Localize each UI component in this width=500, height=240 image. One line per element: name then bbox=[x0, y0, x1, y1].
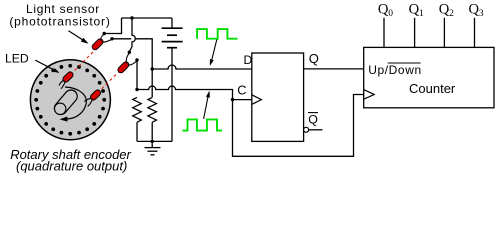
LED D1 body bbox=[62, 71, 75, 84]
phototransistor Q1 body bbox=[91, 38, 104, 51]
svg-text:(quadrature output): (quadrature output) bbox=[16, 159, 127, 174]
wire: R1 bottom bbox=[136, 122, 138, 141]
node: Q1 emitter bbox=[110, 37, 113, 40]
node: Q2 emitter bbox=[135, 58, 138, 61]
shaft cylinder bbox=[52, 87, 80, 117]
phototransistor Q2 body bbox=[117, 61, 130, 74]
svg-text:Counter: Counter bbox=[409, 81, 456, 96]
LED D2 leads bbox=[84, 98, 92, 106]
phototransistor Q1 leads bbox=[101, 34, 112, 42]
disk hole dots bbox=[34, 64, 106, 136]
svg-text:Q: Q bbox=[309, 51, 319, 66]
svg-text:Q: Q bbox=[378, 2, 389, 18]
wire: C branch to flip-flop clock bbox=[233, 99, 252, 101]
wire: Qbar stub bbox=[309, 129, 323, 131]
wire: bottom rail bbox=[137, 140, 172, 142]
svg-text:(phototransistor): (phototransistor) bbox=[9, 14, 110, 28]
rotation arrow bbox=[65, 87, 86, 119]
wire: Q2 stem bbox=[443, 18, 445, 48]
node: Q2 collector bbox=[128, 51, 131, 54]
wire: Q1 collector riser bbox=[104, 18, 121, 34]
counter U2 bbox=[364, 47, 494, 107]
svg-text:Up/Down: Up/Down bbox=[368, 63, 422, 77]
encoder disk bbox=[30, 60, 110, 140]
node: channel A / D line junction bbox=[151, 67, 154, 70]
U1 Qbar bubble bbox=[304, 127, 309, 132]
ground bbox=[145, 141, 161, 154]
resistor R1 bbox=[133, 97, 142, 122]
node: positive rail junction bbox=[130, 16, 133, 19]
arrow from waveform B to C line bbox=[204, 91, 210, 119]
node: channel B / C line junction bbox=[135, 88, 138, 91]
node: clock branch junction bbox=[231, 98, 234, 101]
battery B1 bbox=[162, 28, 183, 48]
wire: R2 bottom bbox=[151, 122, 153, 141]
wire: Q2 collector riser with hop bbox=[129, 18, 135, 52]
svg-text:2: 2 bbox=[449, 9, 454, 19]
wire: battery negative stem bbox=[171, 48, 173, 142]
D flip-flop U1 bbox=[252, 53, 304, 141]
wire: D line with hop over battery wire bbox=[152, 65, 251, 69]
svg-text:Q: Q bbox=[469, 2, 480, 18]
wire: battery positive drop bbox=[171, 18, 173, 28]
wire: Q to Up/Down bbox=[304, 68, 364, 70]
light beam B (dashed) bbox=[98, 69, 122, 93]
svg-text:Q: Q bbox=[409, 2, 420, 18]
wire: Q1 stem bbox=[414, 18, 416, 48]
wire: R2 riser bbox=[151, 69, 153, 97]
svg-text:LED: LED bbox=[5, 52, 29, 66]
node: ground junction bbox=[151, 140, 154, 143]
svg-text:1: 1 bbox=[419, 9, 424, 19]
phototransistor Q2 leads bbox=[126, 53, 137, 65]
light beam A (dashed) bbox=[71, 50, 96, 75]
svg-text:Q: Q bbox=[308, 112, 318, 126]
svg-text:Q: Q bbox=[439, 2, 450, 18]
arrow from waveform A to D line bbox=[210, 40, 217, 66]
wire: C line with hops bbox=[137, 86, 364, 156]
resistor R2 bbox=[148, 97, 157, 122]
LED D2 body bbox=[89, 89, 102, 102]
arrow to light sensor bbox=[69, 31, 89, 44]
svg-text:0: 0 bbox=[388, 9, 393, 19]
wire: top rail bbox=[122, 17, 173, 19]
svg-text:3: 3 bbox=[479, 9, 484, 19]
LED D1 leads bbox=[59, 80, 65, 89]
U1 clock triangle bbox=[252, 95, 262, 105]
svg-text:D: D bbox=[244, 53, 253, 67]
wire: Q0 stem bbox=[383, 18, 385, 48]
wire: channel A (Q1 emitter to D) bbox=[112, 39, 152, 69]
svg-text:C: C bbox=[237, 83, 246, 98]
arrow to LED bbox=[35, 60, 59, 73]
waveform A (green) bbox=[197, 29, 238, 39]
U2 clock triangle bbox=[364, 90, 375, 100]
node: Q1 collector bbox=[103, 32, 106, 35]
waveform B (green) bbox=[182, 119, 222, 130]
wire: Q3 stem bbox=[474, 18, 476, 48]
wire: Q2 emitter riser bbox=[136, 60, 138, 90]
